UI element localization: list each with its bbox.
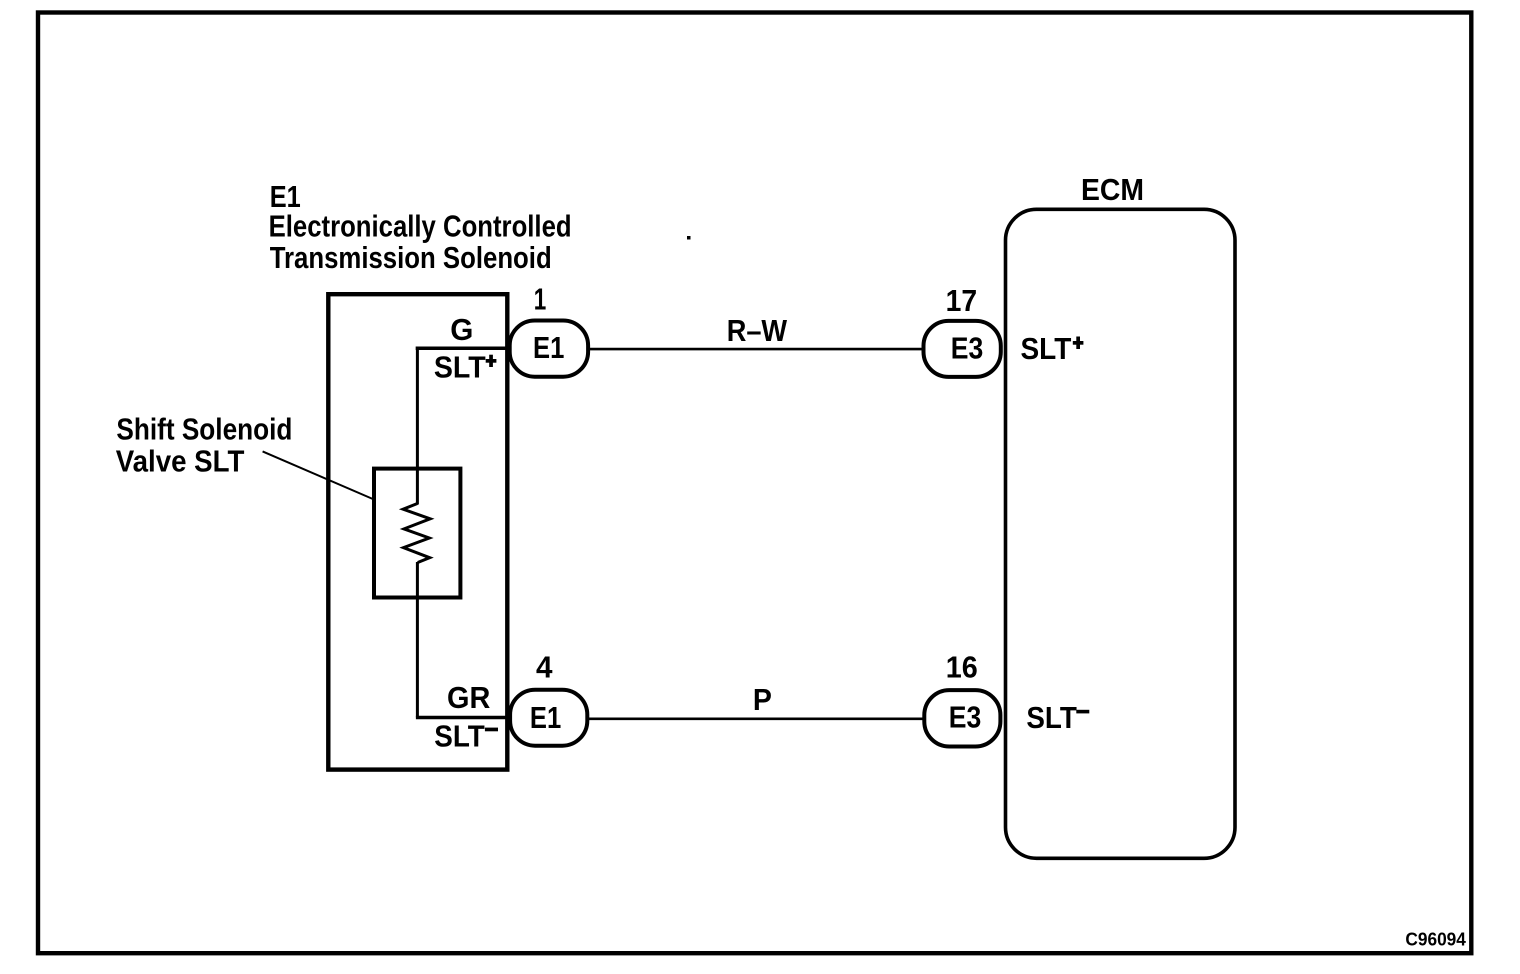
connector oval E3 pin 16: [924, 690, 1000, 746]
wire: vertical from resistor to bottom: [416, 562, 419, 718]
wire: top horizontal inside solenoid box: [416, 347, 507, 351]
svg-text:SLT: SLT: [1021, 332, 1072, 366]
svg-text:16: 16: [946, 650, 978, 684]
svg-text:ECM: ECM: [1081, 173, 1144, 207]
wire: vertical from top to resistor: [416, 347, 419, 505]
svg-text:E1: E1: [530, 701, 561, 735]
resistor box (shift solenoid valve SLT): [374, 469, 460, 598]
speck artifact: [687, 236, 691, 240]
svg-text:P: P: [753, 683, 772, 717]
svg-text:E1: E1: [533, 331, 564, 365]
svg-text:Shift Solenoid: Shift Solenoid: [116, 412, 292, 446]
wire P: [588, 717, 924, 720]
wire R-W: [589, 348, 923, 351]
ECM box: [1006, 209, 1236, 858]
resistor SLT zigzag: [403, 504, 430, 563]
svg-text:Valve SLT: Valve SLT: [116, 445, 245, 479]
connector oval E1 pin 1: [510, 321, 588, 377]
connector oval E3 pin 17: [924, 321, 1001, 377]
svg-text:E3: E3: [949, 700, 982, 734]
svg-text:Transmission Solenoid: Transmission Solenoid: [270, 241, 552, 275]
svg-text:C96094: C96094: [1405, 929, 1466, 950]
svg-text:1: 1: [534, 283, 547, 317]
svg-text:4: 4: [536, 650, 553, 684]
svg-text:SLT: SLT: [434, 720, 485, 754]
svg-text:SLT: SLT: [1026, 701, 1077, 735]
svg-text:E3: E3: [951, 331, 984, 365]
leader line to resistor: [263, 451, 374, 499]
solenoid assembly box E1: [328, 294, 507, 769]
svg-text:R–W: R–W: [727, 314, 788, 348]
connector oval E1 pin 4: [510, 690, 587, 746]
svg-text:G: G: [450, 313, 473, 347]
wire: bottom horizontal inside solenoid box: [416, 716, 507, 720]
svg-text:17: 17: [946, 284, 978, 318]
svg-text:Electronically Controlled: Electronically Controlled: [269, 210, 572, 244]
svg-text:GR: GR: [447, 681, 490, 715]
svg-text:SLT: SLT: [434, 350, 486, 384]
